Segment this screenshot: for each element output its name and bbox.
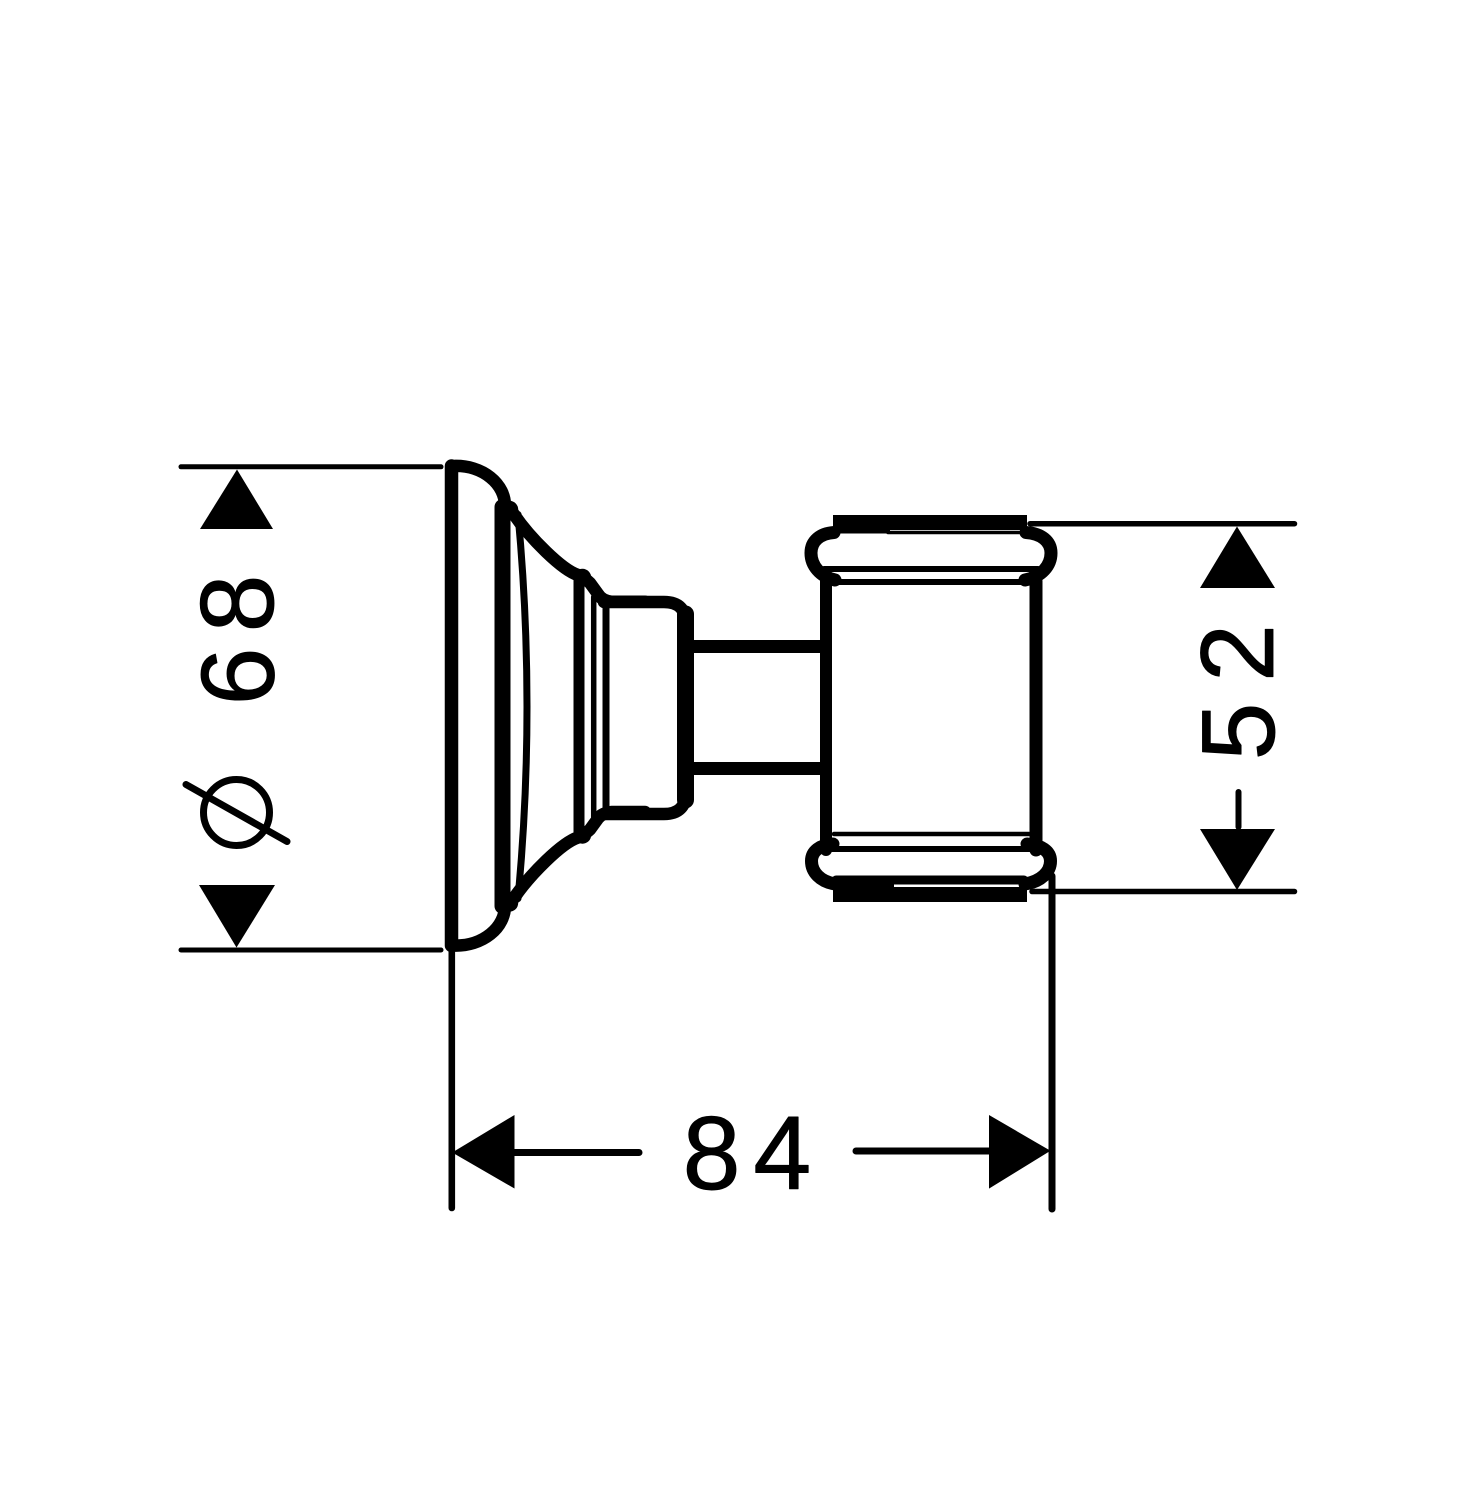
arrow up (dim 68) xyxy=(200,470,273,530)
escutcheon outer profile top xyxy=(456,466,646,602)
escutcheon contour line C xyxy=(574,577,585,837)
dimension stub line (dim 52) xyxy=(1236,792,1242,827)
valve body left edge xyxy=(820,581,832,850)
arrow right (dim 84) xyxy=(989,1115,1051,1189)
hub outline xyxy=(604,602,686,814)
extension line bottom (dim 68) xyxy=(181,948,441,953)
top bead left bulge xyxy=(811,533,835,581)
dimension shaft right (dim 84) xyxy=(856,1148,990,1155)
top bead inner highlight line xyxy=(888,531,1020,535)
svg-text:8: 8 xyxy=(683,1096,741,1212)
svg-text:2: 2 xyxy=(1180,624,1296,682)
escutcheon contour line A xyxy=(495,507,511,906)
stem top line xyxy=(688,640,824,653)
bottom bead left bulge xyxy=(812,844,836,884)
dimension shaft left (dim 84) xyxy=(514,1149,639,1156)
svg-text:4: 4 xyxy=(753,1096,811,1212)
escutcheon profile knuckle bottom 1 xyxy=(501,894,518,911)
escutcheon contour line B xyxy=(518,515,527,899)
escutcheon profile knuckle bottom 2 xyxy=(574,826,591,843)
top bead top bar xyxy=(833,515,1027,530)
escutcheon profile knuckle top 1 xyxy=(501,501,518,518)
escutcheon profile knuckle top 2 xyxy=(574,569,591,586)
bottom bead inner contour xyxy=(836,876,1024,885)
extension line right (dim 84) xyxy=(1049,876,1056,1209)
arrow left (dim 84) xyxy=(452,1115,514,1189)
top bead mid line xyxy=(824,566,1038,572)
extension line top (dim 68) xyxy=(181,464,441,469)
arrow down (dim 52) xyxy=(1200,829,1275,890)
stem bottom line xyxy=(688,762,824,775)
bottom bead right bulge xyxy=(1025,844,1051,884)
extension line bottom (dim 52) xyxy=(1032,889,1295,895)
arrow down (dim 68) xyxy=(199,885,275,948)
top bead bottom bar xyxy=(832,579,1028,585)
bottom bead left merge patch xyxy=(838,878,894,890)
svg-text:6: 6 xyxy=(180,648,296,706)
bottom bead top line xyxy=(834,832,1029,837)
top bead left merge patch xyxy=(836,521,890,534)
escutcheon left edge xyxy=(445,466,459,946)
valve body right edge xyxy=(1030,581,1043,850)
bottom bead mid line xyxy=(822,846,1039,852)
diameter symbol of dim 68 xyxy=(186,780,287,846)
top bead right bulge xyxy=(1025,533,1051,581)
svg-text:5: 5 xyxy=(1181,703,1297,761)
extension line left (dim 84) xyxy=(448,950,455,1208)
svg-text:8: 8 xyxy=(180,575,296,633)
arrow up (dim 52) xyxy=(1200,527,1275,589)
extension line top (dim 52) xyxy=(1030,521,1295,527)
bottom bead bottom bar (outer) xyxy=(833,887,1027,902)
escutcheon contour line D xyxy=(591,597,597,817)
escutcheon outer profile bottom xyxy=(456,812,646,946)
hub left edge xyxy=(603,601,610,813)
hub right edge thick xyxy=(677,614,694,800)
